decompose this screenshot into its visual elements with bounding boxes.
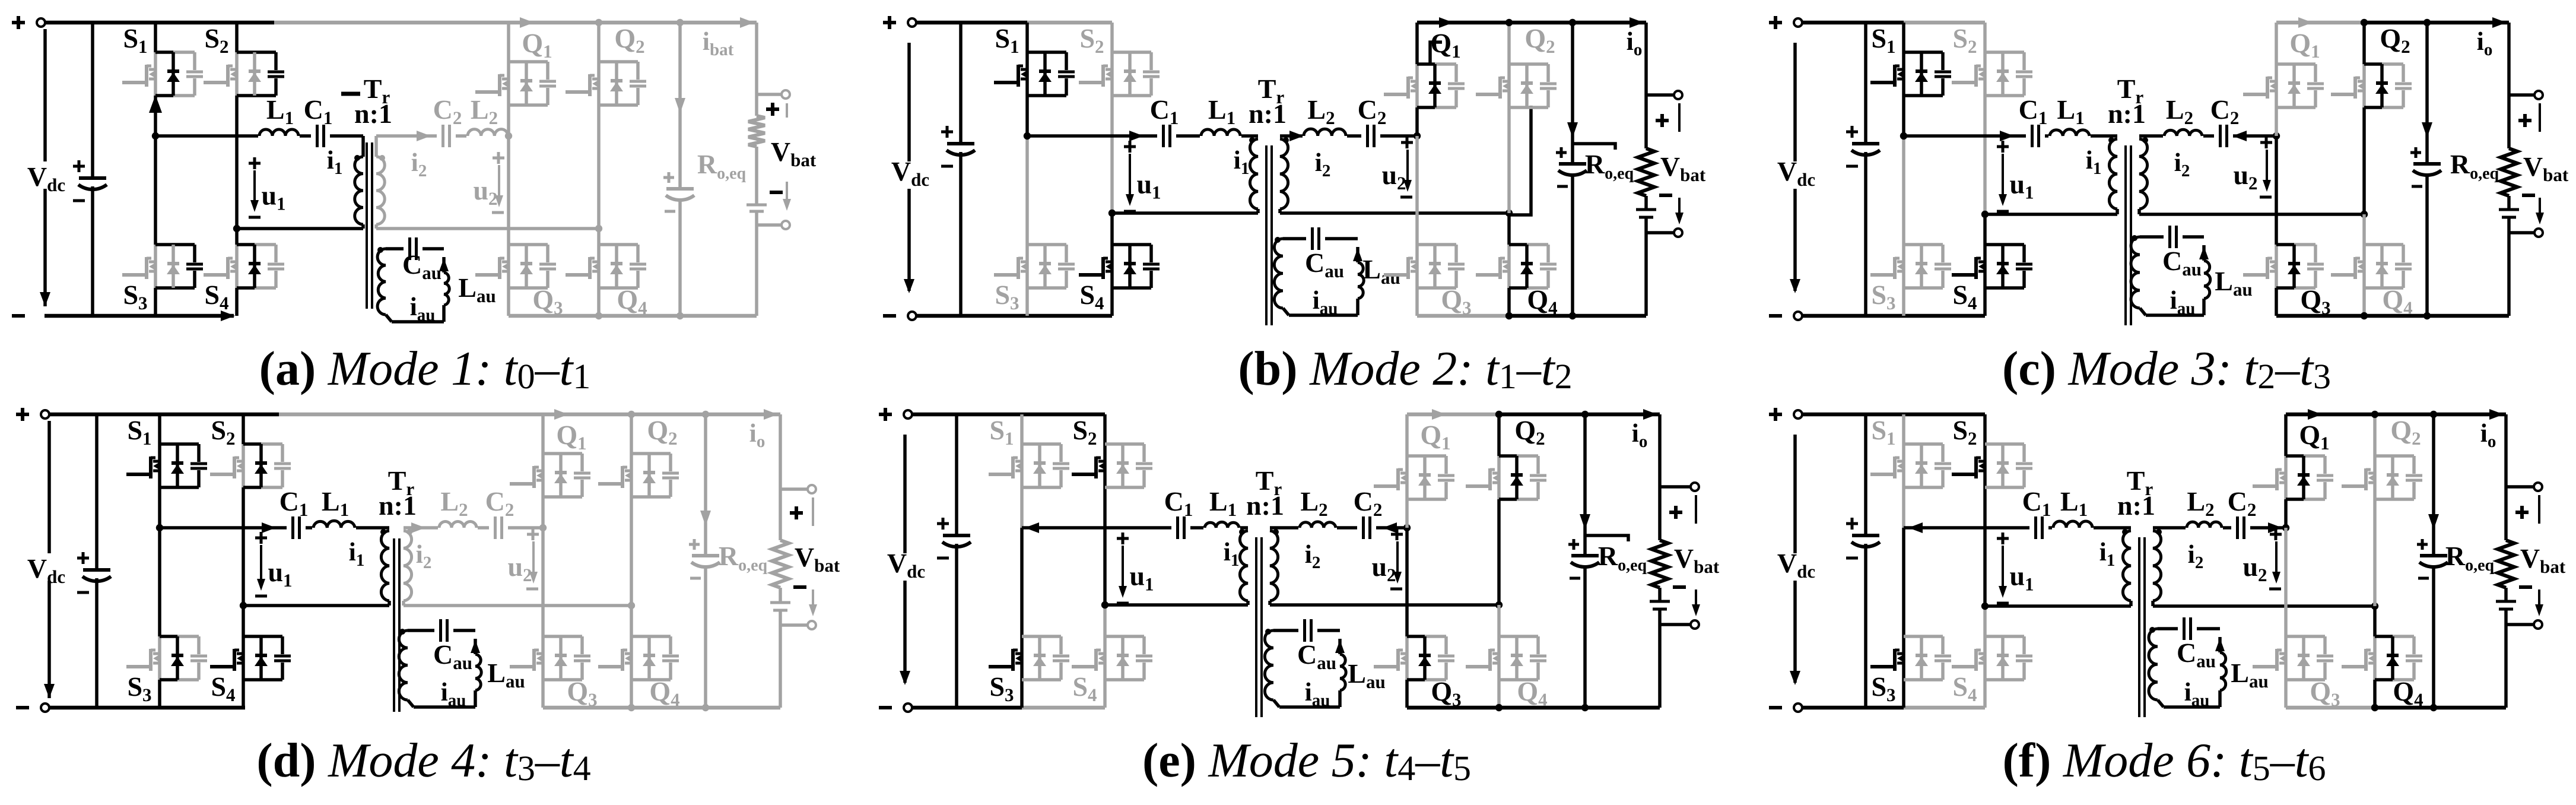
(c) wire leg S4 source	[1983, 288, 1987, 316]
(c) Vdc arrow	[1790, 43, 1800, 293]
(c) transformer Tr core	[2126, 145, 2131, 325]
(b) label battery plus	[1656, 114, 1669, 127]
(b) label n:1	[1249, 99, 1287, 129]
(e) transformer primary winding	[1240, 531, 1248, 605]
(b) transistor Q4	[1476, 245, 1557, 288]
(c) inductor Lau loop	[2146, 245, 2210, 315]
(e) voltage u1 marker	[1117, 533, 1154, 603]
(b) capacitor C1	[1157, 123, 1176, 149]
(d) wire output line	[704, 414, 707, 708]
(e) wire leg S2 drain	[1103, 414, 1107, 444]
(e) label i2	[1305, 540, 1321, 572]
(e) wire leg S4 source	[1103, 680, 1107, 708]
(b) wire leg S2 drain	[1110, 23, 1114, 52]
(c) wire bottom rail primary	[1802, 314, 1985, 318]
(b) capacitor Cdc input bus	[941, 23, 975, 316]
(b) inductor L1	[1200, 129, 1241, 138]
(f) battery + terminal	[2506, 483, 2542, 524]
(f) transformer secondary winding	[2153, 531, 2161, 606]
(f) transistor Q1	[2253, 456, 2333, 499]
(d) wire leg above S3	[158, 528, 161, 636]
(a) arrow output current	[675, 23, 685, 113]
(c) dot secondary winding	[2142, 137, 2148, 143]
(b) label Cau	[1305, 248, 1344, 281]
(e) wire leg Q1 drain	[1405, 414, 1409, 456]
(d) transformer primary winding	[381, 531, 389, 606]
(a) label L2	[471, 94, 498, 128]
(e) caption	[1142, 733, 1471, 788]
(d) label C2	[485, 486, 514, 520]
(d) transistor Q3	[510, 636, 590, 680]
(d) Vdc arrow	[44, 421, 55, 698]
(a) label Q3	[532, 284, 563, 318]
(c) label S3	[1871, 280, 1895, 313]
(f) transistor Q2	[2342, 456, 2422, 499]
(d) transformer Tr core	[394, 538, 399, 712]
(d) transistor S2	[210, 444, 291, 487]
(a) label Tr	[341, 74, 390, 107]
(d) label S4	[211, 671, 235, 705]
(f) wire leg Q1 drain	[2284, 414, 2288, 456]
(d) label S3	[127, 671, 151, 705]
(b) wire bottom rail secondary	[1417, 314, 1646, 318]
(d) wire secondary bottom return	[404, 602, 635, 609]
(e) label Q1	[1420, 420, 1450, 454]
(d) voltage u2 marker	[507, 528, 539, 589]
(a) wire leg Q1-Q3 mid	[507, 105, 510, 136]
(b) label i2	[1315, 148, 1331, 180]
(b) wire aux top	[1283, 237, 1358, 240]
(d) wire leg Q4 source	[630, 680, 633, 708]
(e) transformer auxiliary winding	[1265, 630, 1279, 707]
(d) wire leg Q1-Q3 mid	[541, 497, 545, 528]
(e) wire leg above Q4	[1497, 605, 1501, 636]
(b) arrow primary current right	[1129, 131, 1144, 141]
(b) capacitor C2	[1361, 123, 1380, 149]
(a) transistor S2	[204, 52, 284, 96]
(e) Vdc - terminal	[879, 703, 912, 712]
(a) wire output line	[678, 23, 682, 316]
(c) wire top rail secondary	[2276, 17, 2509, 28]
(d) Vdc + terminal	[16, 408, 49, 421]
(e) label i1	[1224, 537, 1240, 570]
(a) wire leg S1 drain	[154, 23, 157, 52]
(f) label Vbat	[2520, 543, 2566, 577]
(a) label Vbat	[771, 137, 817, 170]
(b) transistor S3	[994, 245, 1075, 288]
(c) capacitor Cau	[2164, 224, 2183, 250]
(a) label S4	[204, 280, 228, 313]
(e) dot auxiliary winding	[1265, 629, 1271, 635]
(a) wire leg S2-S4 mid	[235, 96, 239, 229]
(f) wire secondary bottom return	[2153, 603, 2378, 610]
(e) label Ro,eq resistor	[1585, 535, 1647, 575]
(b) battery - terminal	[1646, 198, 1684, 237]
(d) battery - terminal	[780, 590, 817, 629]
(a) battery - terminal	[757, 182, 791, 229]
svg-text:n:1: n:1	[354, 99, 392, 129]
(e) transistor S3	[989, 636, 1069, 680]
(f) arrow secondary current right	[2268, 522, 2282, 533]
(c) transformer primary winding	[2109, 139, 2117, 214]
(c) transistor S1	[1870, 52, 1951, 96]
(a) label iau	[410, 292, 436, 325]
(e) label battery minus	[1673, 585, 1686, 589]
(d) label battery minus	[793, 585, 806, 589]
(d) transformer auxiliary winding	[399, 630, 414, 707]
(e) wire leg Q3 source	[1405, 680, 1409, 708]
(d) label Q2	[647, 415, 677, 449]
(a) resistor battery internal	[748, 116, 765, 147]
(f) wire top rail secondary	[2286, 409, 2506, 420]
(b) label L2	[1307, 94, 1335, 128]
(c) label i1	[2086, 145, 2102, 178]
(d) wire leg above Q3	[541, 528, 545, 636]
(e) label io current	[1632, 409, 1657, 451]
(d) label Tr	[388, 465, 415, 499]
(c) transistor S2	[1952, 52, 2032, 96]
svg-text:(a) Mode 1: t0–t1: (a) Mode 1: t0–t1	[259, 341, 591, 396]
(f) label S4	[1952, 671, 1977, 705]
(e) wire leg above S4	[1103, 605, 1107, 636]
(e) wire aux top	[1273, 629, 1340, 632]
(d) wire primary mid rail	[160, 526, 389, 530]
(d) wire bottom rail primary	[49, 706, 245, 710]
(f) label Cau	[2177, 638, 2216, 671]
(f) battery Vbat source	[2496, 588, 2516, 708]
(f) label i2	[2188, 540, 2204, 572]
(c) label S1	[1871, 23, 1895, 57]
(b) transformer primary winding	[1250, 139, 1258, 213]
(e) battery + terminal	[1660, 483, 1699, 524]
(c) transformer secondary winding	[2139, 139, 2148, 214]
(b) Vdc arrow	[904, 43, 914, 293]
(f) wire output line	[2432, 414, 2435, 708]
(f) wire leg S4 source	[1983, 680, 1987, 708]
(c) Vdc + terminal	[1769, 16, 1802, 29]
(a) wire secondary mid rail	[376, 134, 509, 138]
(d) transistor Q1	[510, 454, 590, 497]
(a) battery Vbat source	[747, 147, 767, 316]
(f) wire leg above S3	[1902, 528, 1905, 636]
(c) resistor battery internal	[2501, 148, 2517, 196]
(f) wire leg Q4 source	[2373, 680, 2377, 708]
(a) wire leg S4 source	[235, 288, 239, 316]
(b) arrow secondary current right	[1289, 131, 1304, 141]
(b) transformer secondary winding	[1280, 139, 1288, 213]
(b) wire leg above Q4	[1507, 213, 1511, 245]
(c) arrow primary current right	[2000, 131, 2014, 141]
(d) battery + terminal	[780, 485, 816, 526]
(b) label S1	[995, 23, 1019, 57]
(a) label n:1	[354, 99, 392, 129]
(f) label C1	[2022, 486, 2051, 520]
(b) wire leg Q4 source	[1507, 288, 1511, 316]
svg-text:n:1: n:1	[1249, 99, 1287, 129]
(f) wire primary bottom return	[1981, 603, 2131, 610]
(c) label Q4	[2382, 284, 2412, 318]
(a) wire leg Q2-Q4 mid	[597, 105, 601, 229]
(d) capacitor Co output	[689, 539, 720, 578]
(c) transistor Q2	[2331, 64, 2412, 107]
(c) capacitor Co output	[2410, 147, 2441, 186]
(b) Vdc + terminal	[883, 16, 916, 29]
(b) transistor S1	[994, 52, 1075, 96]
(f) capacitor Cdc input bus	[1846, 414, 1880, 708]
(e) label Vbat	[1674, 543, 1720, 577]
(b) inductor L2	[1303, 129, 1347, 138]
(b) transistor Q2	[1476, 64, 1557, 107]
(d) label Vbat	[795, 542, 840, 576]
(a) transistor S1	[122, 52, 203, 96]
(c) wire leg S2-S4 mid	[1983, 96, 1987, 214]
(b) label battery minus	[1659, 194, 1672, 197]
(a) wire bottom rail primary	[45, 310, 235, 321]
(f) label Tr	[2127, 465, 2153, 499]
(c) arrow output current	[2422, 23, 2432, 138]
(e) label S3	[989, 671, 1014, 705]
(d) wire secondary mid rail	[404, 526, 543, 530]
(f) wire top rail primary	[1802, 413, 1985, 417]
(e) node secondary mid	[1403, 524, 1411, 531]
(d) inductor L1	[312, 521, 356, 530]
(a) inductor L2	[466, 129, 509, 138]
(b) capacitor Co output	[1556, 147, 1587, 186]
(b) Vdc - terminal	[883, 312, 916, 320]
(d) junction dots output rails	[628, 411, 709, 711]
(c) Vdc - terminal	[1769, 312, 1802, 320]
(e) arrow secondary current left	[1383, 522, 1397, 533]
(c) voltage u2 marker	[2233, 137, 2272, 197]
(a) label io current	[703, 17, 754, 59]
(b) wire leg above Q3	[1415, 136, 1419, 245]
svg-text:(f) Mode 6: t5–t6: (f) Mode 6: t5–t6	[2002, 733, 2326, 788]
(b) resistor battery internal	[1638, 148, 1654, 196]
(a) wire leg S3 source	[154, 288, 157, 316]
(b) label Q3	[1441, 284, 1471, 318]
(f) label Q4	[2393, 676, 2423, 710]
(e) arrow primary current left	[1025, 522, 1039, 533]
(b) label Q2	[1524, 23, 1555, 57]
(c) wire leg above S4	[1983, 214, 1987, 245]
(a) arrow secondary current right	[417, 131, 431, 141]
(a) label battery minus	[770, 191, 783, 194]
(f) dot secondary winding	[2156, 529, 2162, 535]
(a) capacitor C2	[437, 123, 456, 149]
(f) label S1	[1871, 415, 1895, 449]
(c) inductor L2	[2163, 129, 2203, 138]
(e) wire primary bottom return	[1101, 601, 1248, 608]
(f) wire leg S3 source	[1902, 680, 1905, 708]
(d) capacitor Cdc input bus	[77, 414, 111, 708]
(e) wire top rail secondary	[1407, 409, 1660, 420]
(f) wire battery top	[2504, 414, 2508, 540]
(f) label n:1	[2117, 490, 2155, 521]
(d) wire leg Q3 source	[541, 680, 545, 708]
(b) wire primary bottom return	[1108, 210, 1258, 217]
(a) caption	[259, 341, 591, 396]
(a) label Q1	[522, 28, 552, 62]
(b) wire leg S4 source	[1110, 288, 1114, 316]
(c) label Cau	[2162, 246, 2202, 280]
(f) label Ro,eq resistor	[2445, 541, 2495, 575]
(e) transformer secondary winding	[1270, 531, 1278, 605]
(b) voltage u2 marker	[1381, 137, 1413, 197]
(f) capacitor Cau	[2178, 616, 2197, 642]
(f) transistor S4	[1952, 636, 2032, 680]
(b) wire leg Q3 source	[1415, 288, 1419, 316]
(e) label n:1	[1246, 490, 1284, 521]
(c) transistor S3	[1870, 245, 1951, 288]
(f) capacitor C2	[2231, 515, 2250, 541]
(d) wire leg Q2 drain	[630, 414, 633, 454]
(f) transistor S1	[1870, 444, 1951, 487]
(d) label Q3	[567, 676, 597, 710]
(f) wire leg S1-S3 mid	[1902, 487, 1905, 528]
(b) wire leg above S3	[1025, 136, 1029, 245]
(d) Vdc - terminal	[16, 703, 49, 712]
(d) dot auxiliary winding	[399, 629, 405, 635]
(a) wire secondary bottom return	[376, 225, 602, 232]
(a) wire leg above Q4	[597, 229, 601, 245]
(b) wire secondary mid rail	[1280, 134, 1417, 138]
(f) Vdc + terminal	[1769, 408, 1802, 421]
(f) label C2	[2228, 486, 2257, 520]
(f) wire leg Q2 drain	[2373, 414, 2377, 456]
svg-text:(e) Mode 5: t4–t5: (e) Mode 5: t4–t5	[1142, 733, 1471, 788]
(f) label L1	[2060, 486, 2088, 520]
(a) label i1	[327, 145, 343, 178]
(a) wire leg Q4 source	[597, 288, 601, 316]
(e) inductor Lau loop	[1279, 639, 1346, 707]
(a) label Lau	[458, 272, 495, 306]
(d) arrow primary current right	[262, 522, 276, 533]
(d) label Lau	[487, 658, 525, 692]
(f) transformer auxiliary winding	[2149, 629, 2164, 707]
(a) transformer auxiliary winding	[377, 249, 392, 322]
(a) label C1	[304, 94, 333, 128]
(e) battery Vbat source	[1650, 588, 1670, 708]
(f) transistor S2	[1952, 444, 2032, 487]
(e) wire primary mid rail	[1022, 526, 1248, 530]
(e) label L2	[1300, 486, 1327, 520]
(c) wire leg S1-S3 mid	[1902, 96, 1905, 136]
(d) wire bottom rail secondary	[543, 706, 780, 710]
(e) wire leg Q2 drain	[1497, 414, 1501, 456]
(e) wire leg Q1-Q3 mid	[1405, 499, 1409, 528]
(b) wire output line	[1571, 23, 1574, 316]
(d) caption	[256, 733, 590, 788]
(f) label battery plus	[2515, 506, 2529, 519]
(c) transistor S4	[1952, 245, 2032, 288]
(a) label S1	[123, 23, 147, 57]
(f) label Q1	[2299, 420, 2329, 454]
(d) node primary mid leg1	[156, 524, 163, 531]
(f) voltage u2 marker	[2243, 528, 2282, 589]
(a) label Ro,eq resistor	[697, 149, 747, 183]
(a) dot auxiliary winding	[377, 247, 383, 253]
(e) voltage u2 marker	[1371, 528, 1403, 589]
(f) Vdc arrow	[1790, 435, 1800, 685]
(d) wire leg S2-S4 mid	[242, 487, 245, 606]
(c) wire leg S2 drain	[1983, 23, 1987, 52]
(a) label Vdc	[25, 161, 74, 195]
(a) node primary mid leg1	[152, 132, 159, 140]
(c) wire secondary mid rail	[2139, 134, 2276, 138]
(b) dot auxiliary winding	[1275, 237, 1281, 243]
(c) capacitor Cdc input bus	[1846, 23, 1880, 316]
(b) wire leg Q2 drain	[1507, 23, 1511, 64]
(b) wire bottom rail primary	[916, 314, 1112, 318]
(b) wire battery top	[1644, 23, 1648, 148]
(d) transformer secondary winding	[404, 531, 412, 606]
(d) label Cau	[433, 639, 472, 673]
(b) dot secondary winding	[1283, 137, 1289, 143]
(c) transformer auxiliary winding	[2131, 237, 2146, 315]
(b) wire leg Q1-Q3 mid	[1415, 107, 1419, 136]
(d) label Q4	[649, 676, 679, 710]
(a) wire leg Q1 drain	[507, 23, 510, 62]
(c) capacitor C1	[2026, 123, 2045, 149]
(f) inductor L1	[2052, 521, 2094, 530]
(b) wire leg S1-S3 mid	[1025, 96, 1029, 136]
(c) label S2	[1952, 23, 1977, 57]
(c) dot primary winding	[2108, 137, 2114, 143]
(d) label L1	[322, 486, 349, 520]
(a) wire aux top	[386, 247, 444, 251]
(a) wire leg Q3 source	[507, 288, 510, 316]
(d) voltage u1 marker	[255, 532, 293, 596]
(f) wire leg Q2-Q4 mid	[2373, 499, 2377, 606]
(e) label iau	[1305, 677, 1330, 710]
(c) transistor Q3	[2243, 245, 2324, 288]
(e) wire leg above S3	[1020, 528, 1024, 636]
(e) junction dots output rails	[1495, 411, 1589, 711]
(b) transistor Q3	[1384, 245, 1465, 288]
(d) arrow secondary current right	[411, 522, 425, 533]
(e) label battery plus	[1669, 506, 1682, 519]
(a) inductor Lau loop	[392, 257, 449, 322]
(c) label battery plus	[2518, 114, 2531, 127]
(e) capacitor Co output	[1568, 539, 1599, 578]
(a) transistor Q3	[475, 245, 556, 288]
(c) wire secondary bottom return	[2139, 211, 2368, 218]
(f) dot auxiliary winding	[2149, 627, 2155, 633]
(b) label C2	[1358, 94, 1387, 128]
(d) label C1	[279, 486, 309, 520]
(b) wire top rail primary	[916, 21, 1112, 25]
(d) wire top rail secondary	[543, 409, 780, 420]
(a) label L1	[266, 94, 294, 128]
(f) inductor L2	[2186, 522, 2223, 530]
(e) wire leg S2-S4 mid	[1103, 487, 1107, 605]
(e) transistor Q4	[1466, 636, 1546, 680]
(b) label Vbat	[1660, 151, 1706, 185]
(a) Vdc arrow	[40, 29, 50, 306]
(e) transistor Q1	[1374, 456, 1454, 499]
(c) inductor L1	[2048, 129, 2091, 138]
(d) battery Vbat source	[770, 588, 790, 708]
(c) junction dots output rails	[2361, 19, 2431, 319]
(f) capacitor Co output	[2417, 539, 2448, 578]
(f) label io current	[2480, 409, 2504, 451]
(c) battery + terminal	[2509, 91, 2543, 132]
(e) Vdc + terminal	[879, 408, 912, 421]
(d) label S2	[211, 415, 235, 449]
(c) wire leg Q1 drain	[2275, 23, 2278, 64]
(d) label i2	[416, 540, 432, 572]
(d) wire primary bottom return	[240, 602, 389, 609]
